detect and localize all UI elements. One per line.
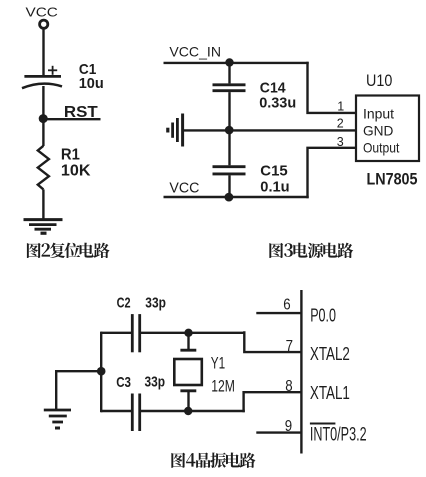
svg-text:C2: C2 bbox=[117, 294, 131, 311]
value label C14 0.33u bbox=[259, 79, 296, 111]
svg-text:RST: RST bbox=[64, 104, 98, 121]
svg-text:9: 9 bbox=[285, 418, 292, 435]
wire C3 to XTAL1 corner bbox=[140, 410, 245, 412]
svg-text:7: 7 bbox=[286, 338, 293, 355]
node RST wire stub bbox=[43, 118, 100, 120]
svg-text:U10: U10 bbox=[366, 71, 392, 90]
capacitor C14 bbox=[213, 85, 246, 91]
ground (reset circuit) bbox=[24, 220, 63, 234]
wire ground branch bbox=[56, 371, 102, 409]
wire VCC to C1 bbox=[42, 29, 44, 76]
value label C2 33p bbox=[117, 294, 166, 311]
resistor R1 bbox=[38, 146, 49, 190]
svg-text:P0.0: P0.0 bbox=[310, 304, 336, 325]
junction C3 / Y1 bottom bbox=[184, 407, 192, 415]
svg-text:10K: 10K bbox=[61, 162, 91, 179]
wire corner up to pin 3 bbox=[308, 148, 357, 198]
ground (power circuit, rotated left) bbox=[168, 114, 183, 147]
caption 图2复位电路 bbox=[27, 243, 110, 258]
wire to C15 top bbox=[228, 130, 230, 165]
svg-text:XTAL2: XTAL2 bbox=[310, 343, 350, 364]
ref label Y1 and value 12M bbox=[211, 354, 235, 395]
svg-text:VCC: VCC bbox=[26, 4, 58, 19]
crystal Y1 body bbox=[174, 359, 202, 385]
value label C1 10u bbox=[79, 61, 104, 92]
svg-text:12M: 12M bbox=[211, 378, 235, 396]
wire C1 to node RST bbox=[42, 86, 44, 119]
wire left rail to C2 bbox=[101, 332, 132, 334]
svg-text:Output: Output bbox=[363, 139, 399, 155]
svg-text:6: 6 bbox=[283, 297, 290, 314]
junction C2 / Y1 top bbox=[184, 329, 192, 337]
svg-text:GND: GND bbox=[363, 122, 393, 138]
svg-text:33p: 33p bbox=[145, 294, 166, 311]
svg-text:2: 2 bbox=[337, 116, 344, 130]
svg-text:1: 1 bbox=[337, 100, 344, 114]
MCU edge bus line bbox=[300, 290, 302, 454]
ground (crystal circuit) bbox=[44, 410, 71, 428]
capacitor C1 (polarized) bbox=[22, 66, 62, 88]
svg-text:8: 8 bbox=[285, 378, 292, 395]
regulator U10 box bbox=[356, 96, 419, 162]
wire VCC_IN rail bbox=[164, 62, 309, 64]
wire left rail to C3 bbox=[101, 410, 132, 412]
wire C2 to XTAL2 corner bbox=[140, 332, 246, 334]
wire GND rail to pin 2 bbox=[183, 129, 357, 131]
wire corner down to pin 1 bbox=[308, 62, 357, 113]
crystal Y1 top electrode bbox=[180, 333, 196, 350]
svg-text:R1: R1 bbox=[61, 147, 80, 164]
svg-text:VCC: VCC bbox=[169, 180, 199, 197]
wire R1 to ground bbox=[42, 189, 44, 219]
crystal Y1 bottom electrode bbox=[180, 391, 196, 411]
svg-text:0.33u: 0.33u bbox=[259, 95, 296, 112]
junction at RST node bbox=[39, 114, 48, 123]
capacitor C2 bbox=[132, 314, 139, 352]
wire C15 bottom to VCC rail bbox=[228, 175, 230, 197]
svg-text:XTAL1: XTAL1 bbox=[310, 382, 350, 403]
wire corner to pin 8 XTAL1 bbox=[244, 392, 302, 412]
svg-text:INT0/P3.2: INT0/P3.2 bbox=[310, 425, 367, 446]
svg-text:C3: C3 bbox=[116, 374, 131, 391]
pin name INT0/P3.2 with overline on INT0 bbox=[310, 424, 367, 446]
svg-text:3: 3 bbox=[337, 135, 344, 149]
value label C3 33p bbox=[116, 374, 165, 391]
svg-text:VCC_IN: VCC_IN bbox=[169, 44, 221, 60]
node VCC terminal (reset circuit) bbox=[26, 4, 58, 28]
svg-text:Input: Input bbox=[363, 106, 394, 121]
svg-text:33p: 33p bbox=[145, 374, 166, 391]
wire corner to pin 7 XTAL2 bbox=[244, 331, 301, 352]
wire C14 bottom to GND rail bbox=[228, 92, 230, 130]
svg-text:10u: 10u bbox=[79, 75, 104, 92]
wire RST node to R1 bbox=[42, 119, 44, 146]
capacitor C15 bbox=[213, 167, 246, 174]
caption 图4晶振电路 bbox=[171, 452, 255, 467]
svg-text:0.1u: 0.1u bbox=[260, 178, 289, 195]
value label R1 10K bbox=[61, 147, 91, 180]
svg-text:C15: C15 bbox=[260, 163, 287, 180]
svg-text:LN7805: LN7805 bbox=[367, 170, 418, 189]
capacitor C3 bbox=[132, 394, 139, 432]
junction GND / C14 C15 bbox=[225, 126, 234, 135]
wire to C14 top bbox=[228, 63, 230, 84]
pin 9 stub bbox=[256, 431, 301, 433]
wire left rail vertical bbox=[100, 332, 102, 413]
caption 图3电源电路 bbox=[269, 243, 353, 258]
junction left rail / ground branch bbox=[97, 367, 106, 376]
value label C15 0.1u bbox=[260, 163, 289, 196]
pin 6 stub bbox=[256, 312, 301, 314]
junction VCC_IN / C14 bbox=[225, 58, 233, 66]
wire VCC rail bbox=[164, 196, 309, 198]
svg-text:Y1: Y1 bbox=[211, 354, 225, 372]
junction VCC / C15 bbox=[225, 193, 234, 202]
